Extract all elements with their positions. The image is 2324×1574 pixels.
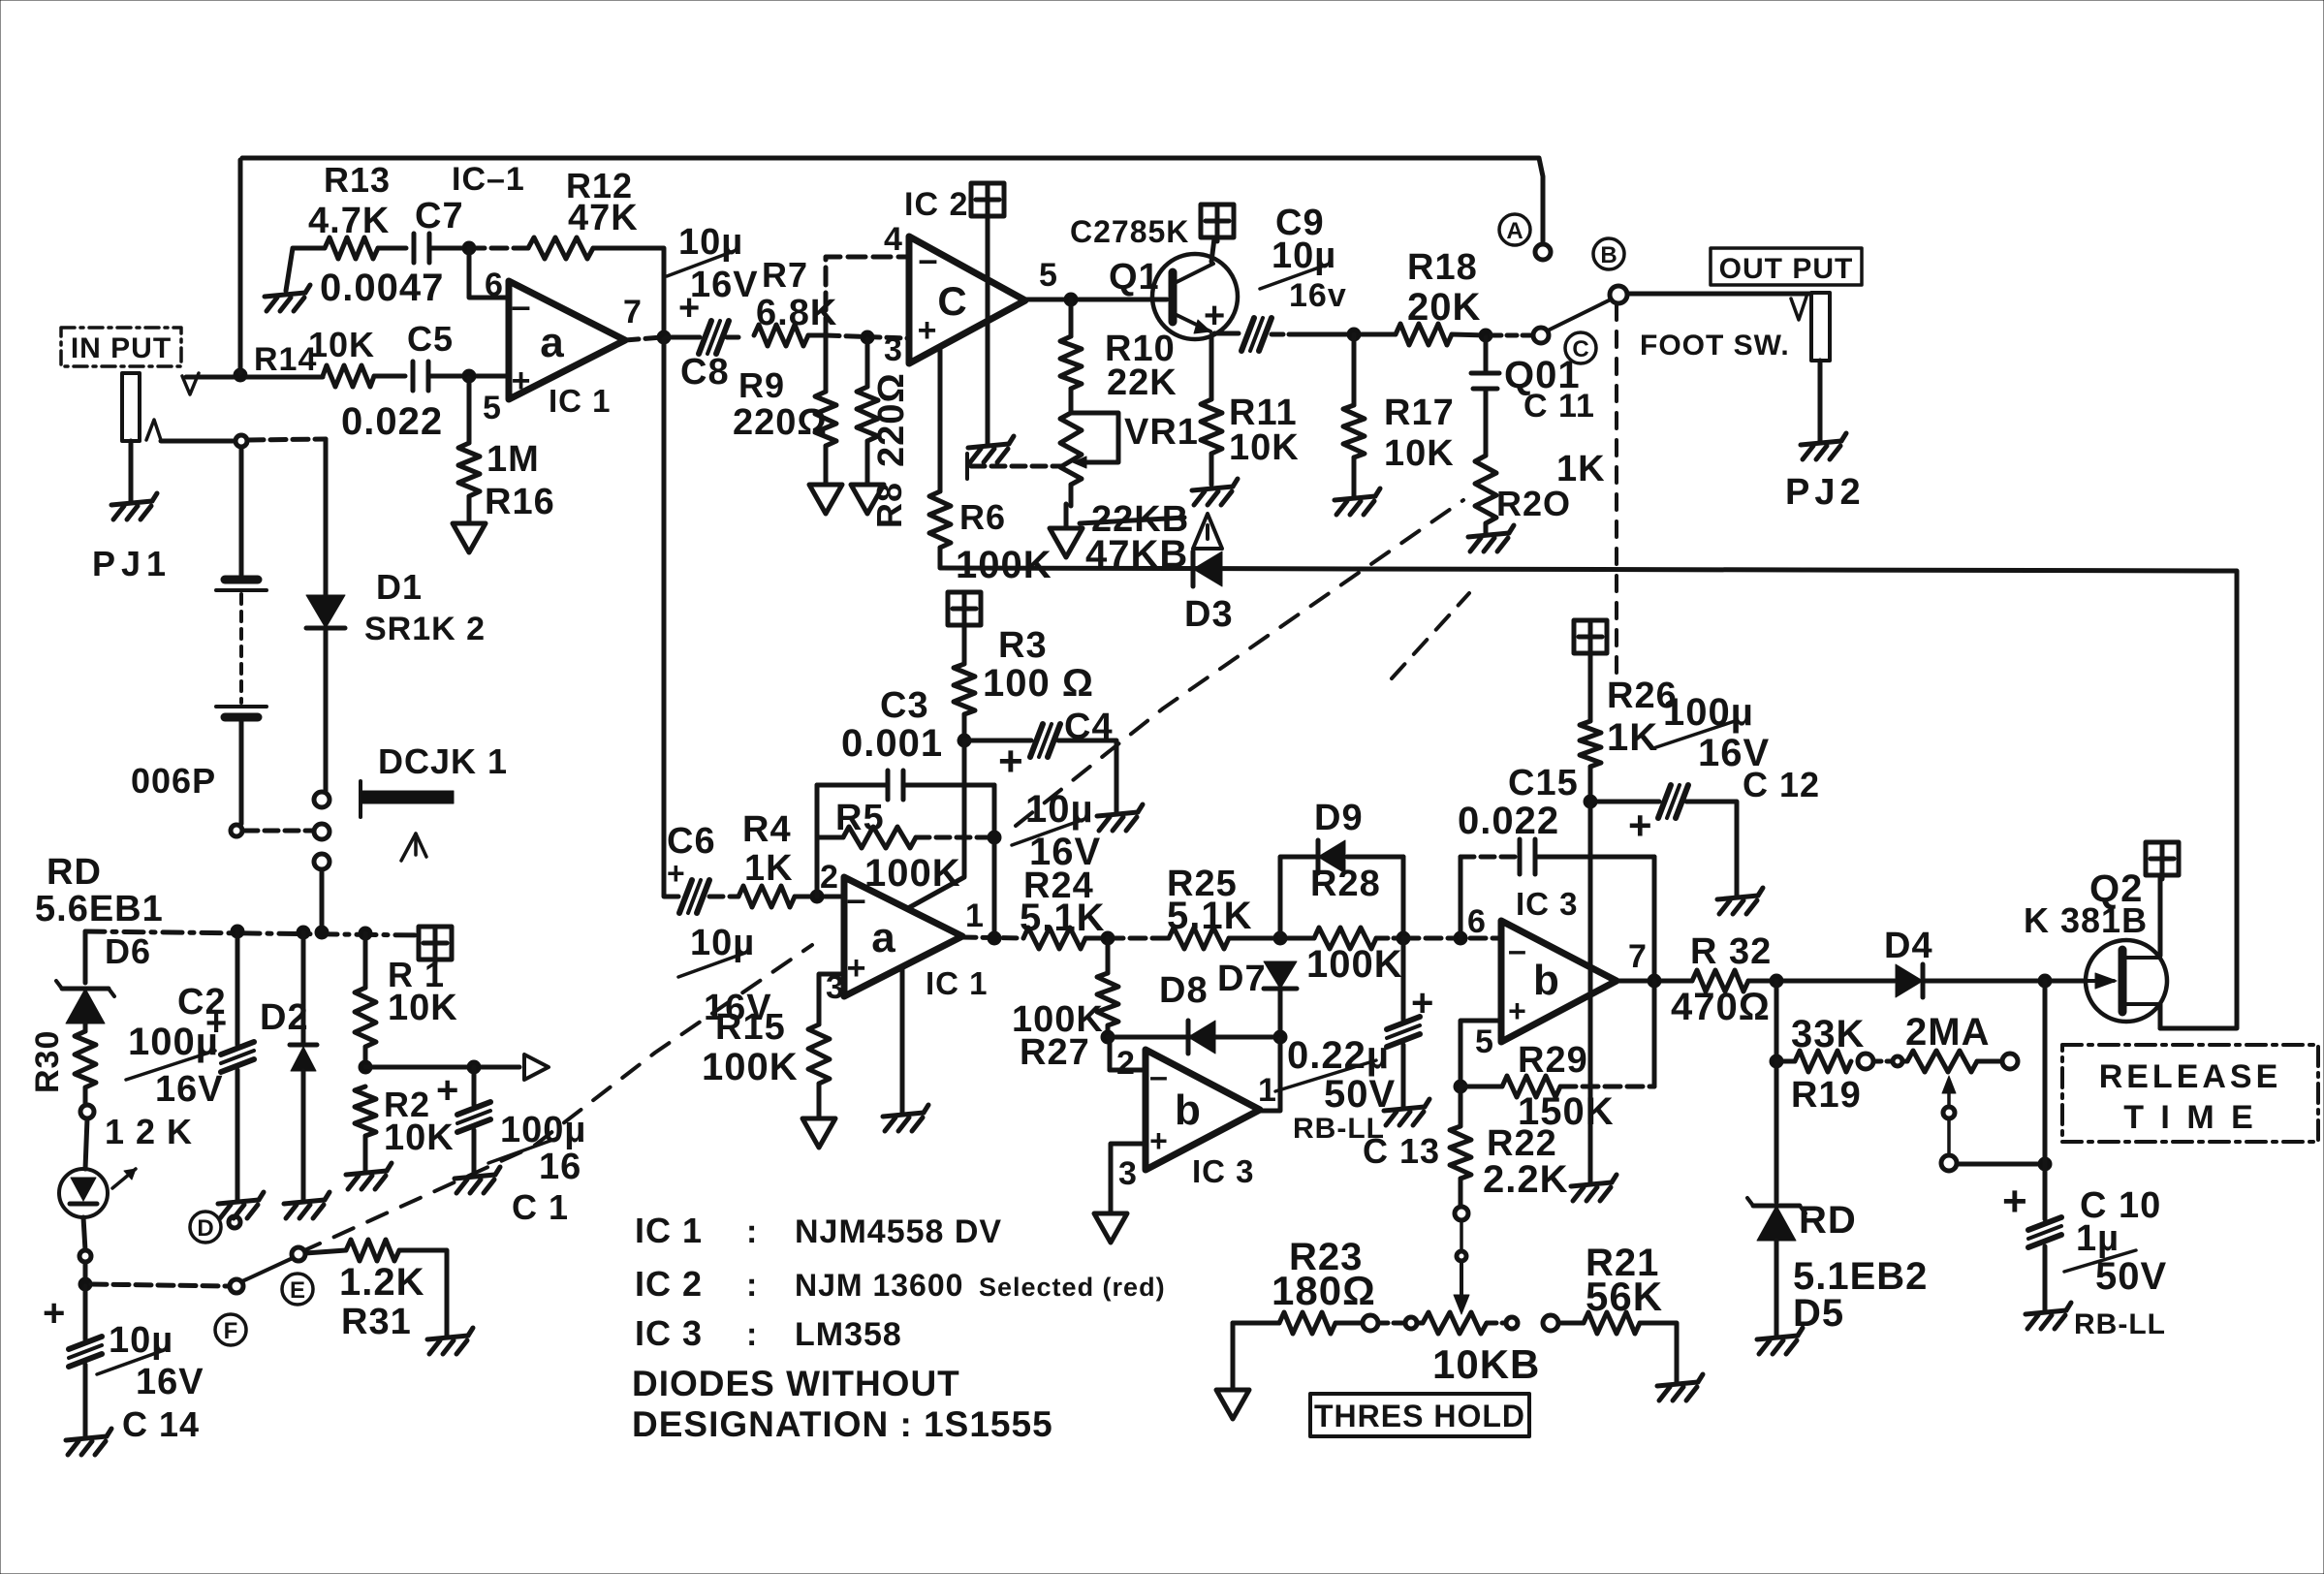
resistor R21 [1558,1312,1640,1334]
svg-text:2: 2 [1116,1045,1136,1082]
svg-text:16v: 16v [1289,277,1347,314]
wire a2 output [962,937,1023,938]
svg-text:IC 3: IC 3 [1192,1153,1255,1189]
ground (D2) [284,1192,330,1218]
wire ring contact line [161,439,235,444]
svg-text:10µ: 10µ [678,222,743,263]
wire rail to D6 [83,931,88,983]
diode D8 [1188,1021,1215,1054]
label R5 [835,798,885,838]
label 16V (C4) [1029,831,1101,873]
label D1 [376,567,423,607]
ground (IC1a2) [883,1105,928,1131]
label 5 (IC2 out) [1039,257,1058,294]
label 100µ (C12) [1653,691,1754,748]
ground (D5) [1757,1328,1803,1354]
label C1 [512,1187,569,1227]
switch arm C-B [1548,299,1611,331]
wire R19-2MA [1873,1059,1891,1064]
diode D9 [1318,840,1345,873]
svg-text:R18: R18 [1407,247,1478,288]
label C14 [122,1404,200,1444]
svg-text:16V: 16V [136,1362,204,1402]
label R9 [738,365,785,405]
wire ring to D1 branch [248,439,326,593]
ground (R23 open) [1216,1390,1249,1419]
label 0.0047 [320,267,444,309]
connector PJ1 (input jack) [122,373,161,503]
svg-text:7: 7 [1628,938,1648,975]
diode D2 [290,1045,317,1071]
svg-text:R28: R28 [1310,864,1381,904]
label 16V (C12) [1698,732,1770,774]
wire R25 to node [1229,936,1278,941]
svg-text:+: + [1628,803,1653,848]
label b (b2) [1533,957,1560,1004]
svg-text:A: A [1506,218,1523,244]
wire D8 line [1108,1037,1278,1070]
svg-text:50V: 50V [1324,1073,1396,1116]
label R18 [1407,247,1478,288]
svg-text:R15: R15 [715,1007,786,1048]
wire D9 loop [1280,857,1403,936]
node pin2 junction [810,890,824,903]
label R26 [1607,676,1678,716]
resistor R5 [817,827,992,848]
label C3 [880,685,929,726]
connector DCJK1 contact2 [314,824,330,839]
resistor R11 lead [1209,335,1214,399]
wire Q1 emitter line [1214,331,1239,336]
op-amp IC1a2 (second) [844,877,962,996]
svg-text:R 32: R 32 [1690,931,1772,972]
wire IC2 out to Q1 [1025,298,1167,302]
wire R26 top [1588,654,1593,721]
svg-text:2MA: 2MA [1905,1011,1990,1054]
ground (R31) [427,1328,473,1354]
wire C12 to gnd [1686,802,1737,896]
label C8 [680,352,730,393]
resistor R2 [355,1086,376,1136]
svg-text:5.1K: 5.1K [1167,895,1253,937]
wire Q2 source [2158,1004,2163,1028]
resistor R9 [815,392,836,446]
label D (circled) [190,1212,221,1243]
label 5 (pin) [483,390,502,426]
label + (C6) [667,856,686,891]
svg-text:+: + [512,362,532,399]
label + (b1) [1149,1123,1169,1158]
wire R4 to pin2 [795,895,842,899]
wire R17 lead [1352,334,1357,405]
wire R1 to node [363,1047,368,1066]
node R17 junction [1347,328,1361,341]
label 4 (pin) [884,221,903,258]
svg-text:RB-LL: RB-LL [2074,1308,2166,1340]
label 10µ (C14) [97,1320,173,1374]
svg-text:IC–1: IC–1 [452,161,525,198]
label FOOT SW. [1640,330,1790,362]
wire R11 gnd lead [1209,454,1214,485]
label D8 [1159,970,1209,1011]
label Q1 [1109,257,1160,298]
svg-text:470Ω: 470Ω [1671,986,1771,1028]
contact B circle [1610,286,1627,303]
label PJ2 [1785,472,1866,513]
label legend IC1 [635,1211,1002,1250]
svg-text:10K: 10K [384,1118,455,1158]
diode D1 (SR1K2) [306,595,345,628]
ground (C12) [1717,888,1763,914]
svg-text:10µ: 10µ [1025,788,1094,831]
warning triangle [1193,514,1222,549]
label 50V (C13) [1324,1073,1396,1116]
svg-text:K 381B: K 381B [2024,900,2148,940]
label R17 [1384,393,1455,433]
wire b2 out [1617,979,1692,984]
label 16V (C8) [690,265,759,305]
ground (C10) [2026,1303,2071,1329]
node D8 left [1101,1030,1115,1044]
node pin5 junction [462,369,476,383]
svg-text:47K: 47K [568,198,639,238]
resistor R19 [1776,1051,1851,1072]
label R24 [1023,866,1094,906]
label A (circled) [1499,214,1530,245]
svg-text:4: 4 [884,221,903,258]
label R27 [1020,1032,1090,1073]
label C11 [1523,388,1595,425]
ground (R13) [265,285,310,311]
label 3 (pin) [884,331,903,368]
transistor Q2 (K381B JFET) [2086,940,2167,1022]
svg-text:2.2K: 2.2K [1483,1158,1569,1201]
wire C5 to pin5 [428,374,507,379]
svg-text:10K: 10K [388,988,458,1028]
label 100µ (C1) [488,1110,586,1163]
svg-text:C 11: C 11 [1523,388,1595,425]
svg-text:50V: 50V [2095,1255,2167,1298]
node RELEASE TIME box [2062,1045,2318,1142]
label R31 [341,1302,412,1342]
label 1 (pin) [965,897,985,934]
wire DCJK1 to rail [320,869,325,930]
wire E to R31 [305,1250,346,1253]
label - (IC1a) [511,286,531,326]
label 100K (R27) [1012,999,1104,1040]
label IC2 [904,186,968,223]
label 150K [1518,1090,1615,1133]
svg-text:6: 6 [1467,903,1487,940]
svg-text:DIODES WITHOUT: DIODES WITHOUT [632,1364,960,1403]
label - (IC1a2) [846,879,866,919]
svg-text:1µ: 1µ [2076,1218,2120,1259]
wire R27 to D8 node [1106,1025,1111,1036]
capacitor C12 (electrolytic) [1658,785,1688,818]
label R8 (rotated) [869,482,909,528]
label 5.1K (R24) [1020,897,1106,939]
label 10µ (C4) [1012,788,1094,845]
label legend diodes1 [632,1364,960,1403]
label 100Ω [983,662,1094,705]
node output junction [657,331,671,344]
node OUT PUT label box [1711,248,1862,285]
svg-text:–: – [1508,932,1527,969]
wire B to output jack [1627,292,1811,297]
wire R9 lead [824,337,829,392]
wire minus input [469,250,507,298]
capacitor C9 (electrolytic) [1241,318,1289,351]
label 2MA [1905,1011,1990,1054]
label 100µ (C2) [126,1003,228,1080]
svg-text:D6: D6 [105,931,151,971]
svg-text:10KB: 10KB [1432,1341,1540,1387]
label 10KB [1432,1341,1540,1387]
label R6 [959,497,1006,537]
wire C2 to gnd [236,1070,240,1200]
svg-text:C 1: C 1 [512,1187,569,1227]
power terminal + (R3) [948,592,981,629]
ground (R20) [1468,525,1514,551]
svg-text:T I M E: T I M E [2123,1099,2257,1136]
ground (R16 open) [453,523,486,552]
node b2 out [1648,974,1661,988]
svg-text:R16: R16 [485,482,555,522]
wire b1 pin3 [1111,1144,1146,1212]
resistor R15 [808,1024,830,1084]
label VR1 [1124,412,1199,453]
label 0.022 (C15) [1458,800,1559,842]
wire D5 lead [1774,1061,1779,1202]
label R15 [715,1007,786,1048]
node feedback junction [462,241,476,255]
svg-text:B: B [1600,242,1617,268]
power terminal + (Q2) [2146,842,2179,879]
capacitor C13 (electrolytic) [1387,1017,1420,1047]
wire junction to R12 [469,246,528,251]
wire C10 to gnd [2043,1246,2048,1310]
node R3 bottom [958,734,971,747]
label R20 [1496,484,1571,523]
label 16v (C9) [1289,277,1347,314]
svg-text:–: – [511,286,531,326]
label 2.2K [1483,1158,1569,1201]
wire input node to top bus [238,160,243,373]
ground (C1) [455,1167,500,1193]
node a2 out [988,931,1001,945]
svg-text:IC 3: IC 3 [635,1313,703,1353]
wire R15 to gnd [817,1084,822,1118]
wire FOOT SW dashed [1615,304,1618,678]
node C14 junction [79,1277,92,1291]
wire R6 riser [938,347,943,491]
label legend diodes2 [632,1404,1053,1444]
svg-text:C15: C15 [1508,763,1579,803]
label legend IC3 [635,1313,902,1353]
label 1K (R26) [1607,716,1658,759]
ground (PJ1) [111,493,157,519]
battery 006P cell2 plate- [225,713,258,722]
label RB-LL (C10) [2074,1308,2166,1340]
svg-text:b: b [1175,1086,1202,1134]
signal arrow D [524,1055,549,1080]
label 10µ (C8) [667,222,743,276]
label 0.001 [841,722,943,765]
resistor R29 [1460,1076,1654,1097]
wire V+ rail [85,931,421,935]
label R22 [1487,1123,1557,1164]
svg-text:R13: R13 [324,160,391,200]
wire C3R5 right vertical [992,785,997,936]
svg-text:+: + [1508,993,1527,1028]
label K381B [2024,900,2148,940]
wire R3 to op output diagonal [908,742,964,908]
wire VR1 wiper left [967,454,1062,479]
wire node to C1/arrow [365,1065,519,1070]
wire D5 to gnd [1774,1241,1779,1336]
label 16V (C6) [704,988,772,1028]
wire R22 to circle [1459,1179,1463,1207]
wire R32 to D4 [1748,979,1895,984]
label 1 (b1) [1258,1072,1277,1109]
label 50V (C10) [2095,1255,2167,1298]
wire C15 right riser [1652,857,1657,979]
wire R12 to output corner [593,248,664,334]
op-amp IC3b (first) [1146,1050,1260,1170]
wire R9 to gnd [824,446,829,485]
label a (IC1a) [540,319,564,366]
svg-text:OUT PUT: OUT PUT [1719,253,1854,285]
label 6 (b2) [1467,903,1487,940]
svg-text:FOOT SW.: FOOT SW. [1640,330,1790,362]
svg-text:100K: 100K [956,544,1052,586]
resistor R18 [1396,324,1452,345]
label PJ1 [92,544,172,583]
wire LED down [83,1217,85,1250]
svg-text:R9: R9 [738,365,785,405]
svg-text:4.7K: 4.7K [308,201,390,241]
svg-text:R30: R30 [29,1030,66,1093]
svg-text:10µ: 10µ [109,1320,173,1361]
node C15 left [1454,931,1467,945]
svg-text:16V: 16V [155,1069,224,1110]
svg-text:D: D [197,1215,213,1242]
svg-text:C: C [937,278,967,324]
label - (b2) [1508,932,1527,969]
svg-text:R31: R31 [341,1302,412,1342]
label 5.6EB1 [35,889,164,929]
svg-text:56K: 56K [1586,1274,1663,1319]
wire C12 line [1590,800,1659,804]
label IC-1 [452,161,525,198]
node ring circle [236,435,247,447]
node R28 right [1397,931,1410,945]
label 33K [1791,1013,1865,1055]
svg-text:1 2 K: 1 2 K [105,1112,193,1151]
label 7 (pin) [623,294,643,331]
svg-text:C5: C5 [407,319,454,359]
label R10 [1105,329,1176,369]
label IC 1 (a2) [926,965,989,1001]
label Q01 (C11 value) [1504,354,1581,396]
svg-text:16: 16 [539,1147,581,1187]
svg-text:R6: R6 [959,497,1006,537]
label 100K (R6) [956,544,1052,586]
wire R19 lead [1774,981,1779,1059]
wire Q2 drain [2158,876,2163,956]
wire battery bottom [239,721,244,824]
wire D2 to gnd [301,1071,306,1200]
contact circle wiper1 [1943,1107,1955,1118]
label 10K (R17) [1384,433,1455,474]
node wiper-C10 [2038,1157,2052,1171]
ground (PJ2) [1801,433,1846,459]
label C12 [1743,765,1820,804]
battery 006P cell1 plate+ [216,588,267,592]
wire IC1a output [625,337,662,340]
wire R2 to gnd [363,1136,368,1171]
ground (R17) [1335,488,1380,515]
label 5 (b2) [1475,1023,1494,1060]
node rail C2 [231,925,244,938]
capacitor C3 [817,771,994,800]
power terminal + (IC2) [971,183,1004,220]
svg-text:SR1K 2: SR1K 2 [364,611,486,647]
svg-text::: : [746,1213,758,1250]
contact E circle [292,1247,305,1261]
svg-text:+: + [43,1292,66,1335]
svg-text:0.001: 0.001 [841,722,943,765]
ground (C4) [1097,804,1143,831]
label 7 (b2) [1628,938,1648,975]
svg-text:E: E [290,1277,305,1304]
resistor R7 [754,325,808,346]
svg-text:–: – [1149,1058,1169,1095]
power terminal + (Q1) [1201,205,1234,241]
label 006P [131,761,216,801]
label IC 1 [549,383,612,419]
wire C13 to gnd [1401,1045,1406,1107]
svg-text:6: 6 [485,267,504,303]
svg-text:IC 2: IC 2 [635,1264,703,1304]
label D6 [105,931,151,971]
svg-text:D3: D3 [1184,594,1234,635]
resistor R12 [528,237,593,259]
svg-text:1K: 1K [1607,716,1658,759]
wire C11-R20 [1484,389,1489,456]
label R32 [1690,931,1772,972]
label + (b2) [1508,993,1527,1028]
node THRESHOLD label box [1310,1394,1529,1436]
svg-text:3: 3 [884,331,903,368]
resistor R1 [355,988,376,1047]
wire junction to pin3 [826,335,907,338]
label C (circled) [1565,332,1596,363]
svg-text:16V: 16V [690,265,759,305]
wire D1 to DCJK1 [324,630,329,792]
connector DCJK1 contact1 [314,792,330,807]
potentiometer VR1 [1060,413,1082,485]
label 16 (C1) [539,1147,581,1187]
wire R8 to gnd [865,441,870,485]
label 16V (C14) [136,1362,204,1402]
svg-text:C2785K: C2785K [1070,214,1189,249]
contact circle 2MA R [2002,1054,2018,1069]
resistor R25 [1169,928,1229,949]
svg-text:THRES HOLD: THRES HOLD [1314,1399,1525,1433]
label C4 [1064,707,1114,747]
svg-text:C7: C7 [415,196,464,236]
